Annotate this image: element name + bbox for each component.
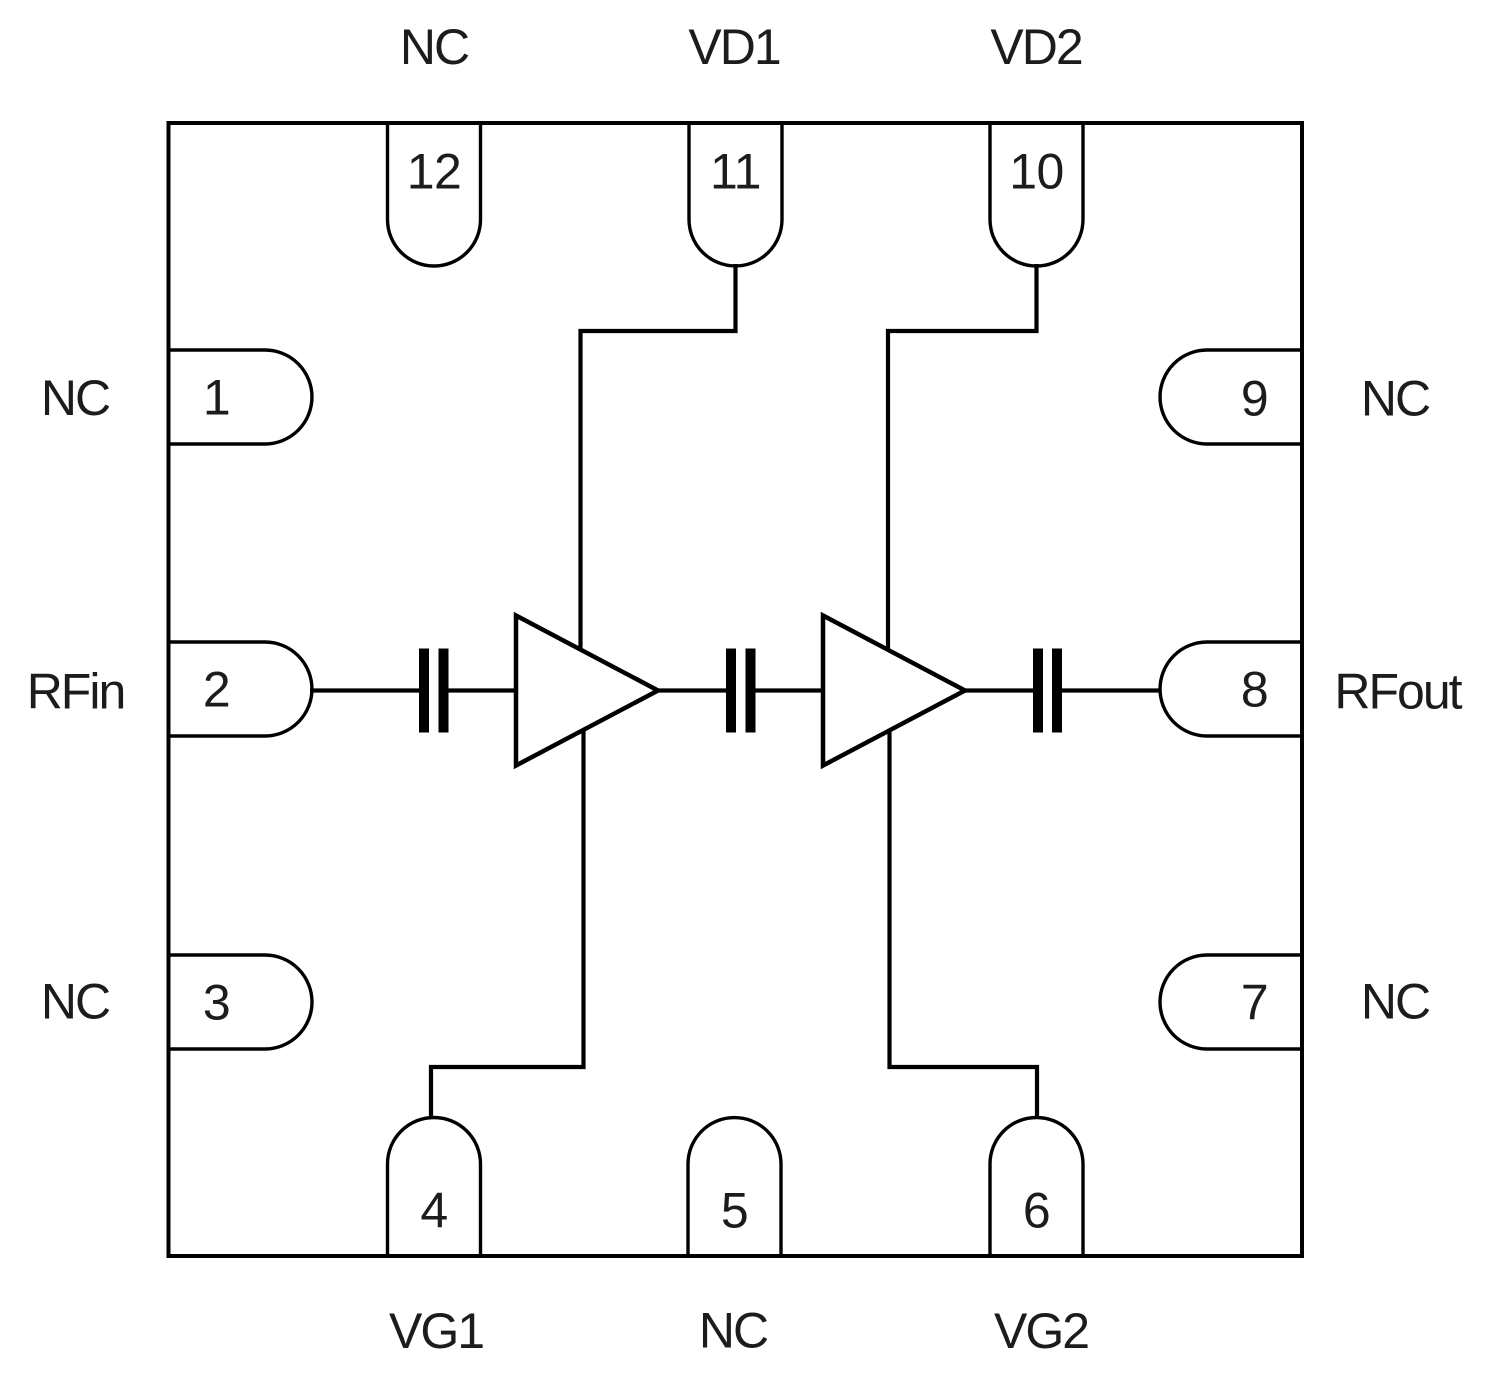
pin 8 (RFout) (1160, 642, 1302, 736)
svg-text:NC: NC (41, 370, 110, 426)
amplifier A2 (823, 616, 965, 766)
capacitor C3 (1033, 649, 1062, 733)
wire A1 to C2 (656, 688, 727, 692)
svg-text:VD1: VD1 (688, 19, 779, 75)
pin 5 (NC) (688, 1118, 781, 1256)
svg-text:VG1: VG1 (389, 1303, 483, 1359)
svg-text:11: 11 (710, 144, 761, 200)
pin 2 (RFin) (169, 642, 312, 736)
amplifier A1 (516, 616, 658, 766)
pin 12 (NC) (388, 123, 481, 266)
svg-text:NC: NC (1361, 974, 1430, 1030)
wire VG1: pin 4 to A1 gate bias (431, 730, 584, 1118)
svg-text:6: 6 (1023, 1183, 1050, 1239)
svg-text:NC: NC (41, 974, 110, 1030)
svg-text:12: 12 (407, 144, 462, 200)
pin 10 (VD2) (990, 123, 1083, 266)
svg-text:NC: NC (699, 1303, 768, 1359)
svg-text:1: 1 (203, 370, 230, 426)
pin 3 (NC) (169, 955, 313, 1049)
pin 1 (NC) (169, 350, 312, 444)
wire A2 to C3 (963, 688, 1034, 692)
svg-text:3: 3 (203, 975, 230, 1031)
svg-text:5: 5 (721, 1183, 748, 1239)
svg-text:9: 9 (1241, 371, 1268, 427)
svg-text:RFin: RFin (27, 664, 125, 720)
svg-text:8: 8 (1241, 662, 1268, 718)
svg-text:10: 10 (1009, 144, 1064, 200)
svg-text:VD2: VD2 (990, 19, 1081, 75)
wire RFin: pin 2 to C1 (310, 688, 420, 692)
svg-text:NC: NC (1361, 371, 1430, 427)
capacitor C2 (726, 649, 756, 733)
pin 7 (NC) (1160, 955, 1302, 1049)
svg-text:NC: NC (400, 19, 469, 75)
wire VG2: pin 6 to A2 gate bias (890, 731, 1038, 1119)
svg-text:2: 2 (203, 662, 230, 718)
wire C2 to amp A2 (755, 688, 825, 692)
package outline U1 (169, 123, 1303, 1256)
svg-text:RFout: RFout (1334, 664, 1462, 720)
capacitor C1 (419, 649, 449, 733)
svg-text:7: 7 (1241, 975, 1268, 1031)
svg-text:VG2: VG2 (994, 1303, 1088, 1359)
wire C1 to amp A1 (448, 688, 518, 692)
pin 6 (VG2) (990, 1118, 1083, 1257)
svg-text:4: 4 (420, 1183, 447, 1239)
pin 4 (VG1) (388, 1118, 481, 1257)
pin 11 (VD1) (689, 123, 782, 266)
wire VD2: pin 10 to A2 drain (888, 264, 1037, 651)
wire C3 to pin 8 (1061, 688, 1161, 692)
pin 9 (NC) (1160, 350, 1302, 444)
wire VD1: pin 11 to A1 drain (581, 264, 736, 650)
